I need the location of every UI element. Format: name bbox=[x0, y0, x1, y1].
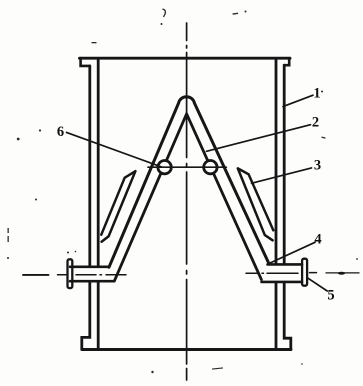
left deflector plate bbox=[101, 171, 135, 242]
hinge axis line bbox=[148, 166, 226, 168]
svg-text:2: 2 bbox=[312, 115, 319, 131]
vertical centerline bbox=[186, 23, 188, 380]
hopper bottom flange line bbox=[82, 348, 291, 351]
left pipe bottom wall bbox=[70, 280, 114, 283]
flap gate inner profile bbox=[115, 114, 262, 281]
right pipe flange bbox=[302, 259, 307, 286]
hinge pin right circle bbox=[204, 161, 217, 174]
svg-text:6: 6 bbox=[57, 124, 64, 140]
top-right flange lip bbox=[284, 58, 289, 65]
right deflector plate bbox=[238, 168, 273, 240]
svg-text:3: 3 bbox=[314, 158, 321, 174]
left wall outer line bbox=[82, 66, 90, 349]
left pipe centerline bbox=[23, 274, 49, 276]
right wall inner line bbox=[275, 59, 278, 348]
svg-text:1: 1 bbox=[313, 86, 320, 102]
hinge pin left circle bbox=[158, 161, 171, 174]
left pipe top wall bbox=[70, 265, 109, 268]
top-left flange lip bbox=[81, 58, 90, 66]
left wall inner line bbox=[97, 59, 100, 348]
right pipe top wall bbox=[268, 263, 303, 266]
leader line 5 bbox=[308, 278, 328, 291]
hopper top edge bbox=[80, 57, 291, 60]
leader line 6 bbox=[67, 132, 162, 167]
flap gate outer profile bbox=[109, 97, 269, 268]
right wall outer line bbox=[284, 65, 291, 348]
svg-text:5: 5 bbox=[327, 288, 334, 304]
leader line 3 bbox=[252, 168, 312, 183]
leader line 2 bbox=[207, 125, 311, 152]
right pipe centerline bbox=[246, 272, 317, 275]
left pipe flange bbox=[68, 259, 73, 288]
leader line 4 bbox=[270, 242, 315, 263]
right flow arrow dash bbox=[326, 272, 359, 274]
svg-text:4: 4 bbox=[314, 232, 321, 248]
leader line 1 bbox=[283, 95, 313, 106]
right pipe bottom wall bbox=[262, 281, 303, 284]
